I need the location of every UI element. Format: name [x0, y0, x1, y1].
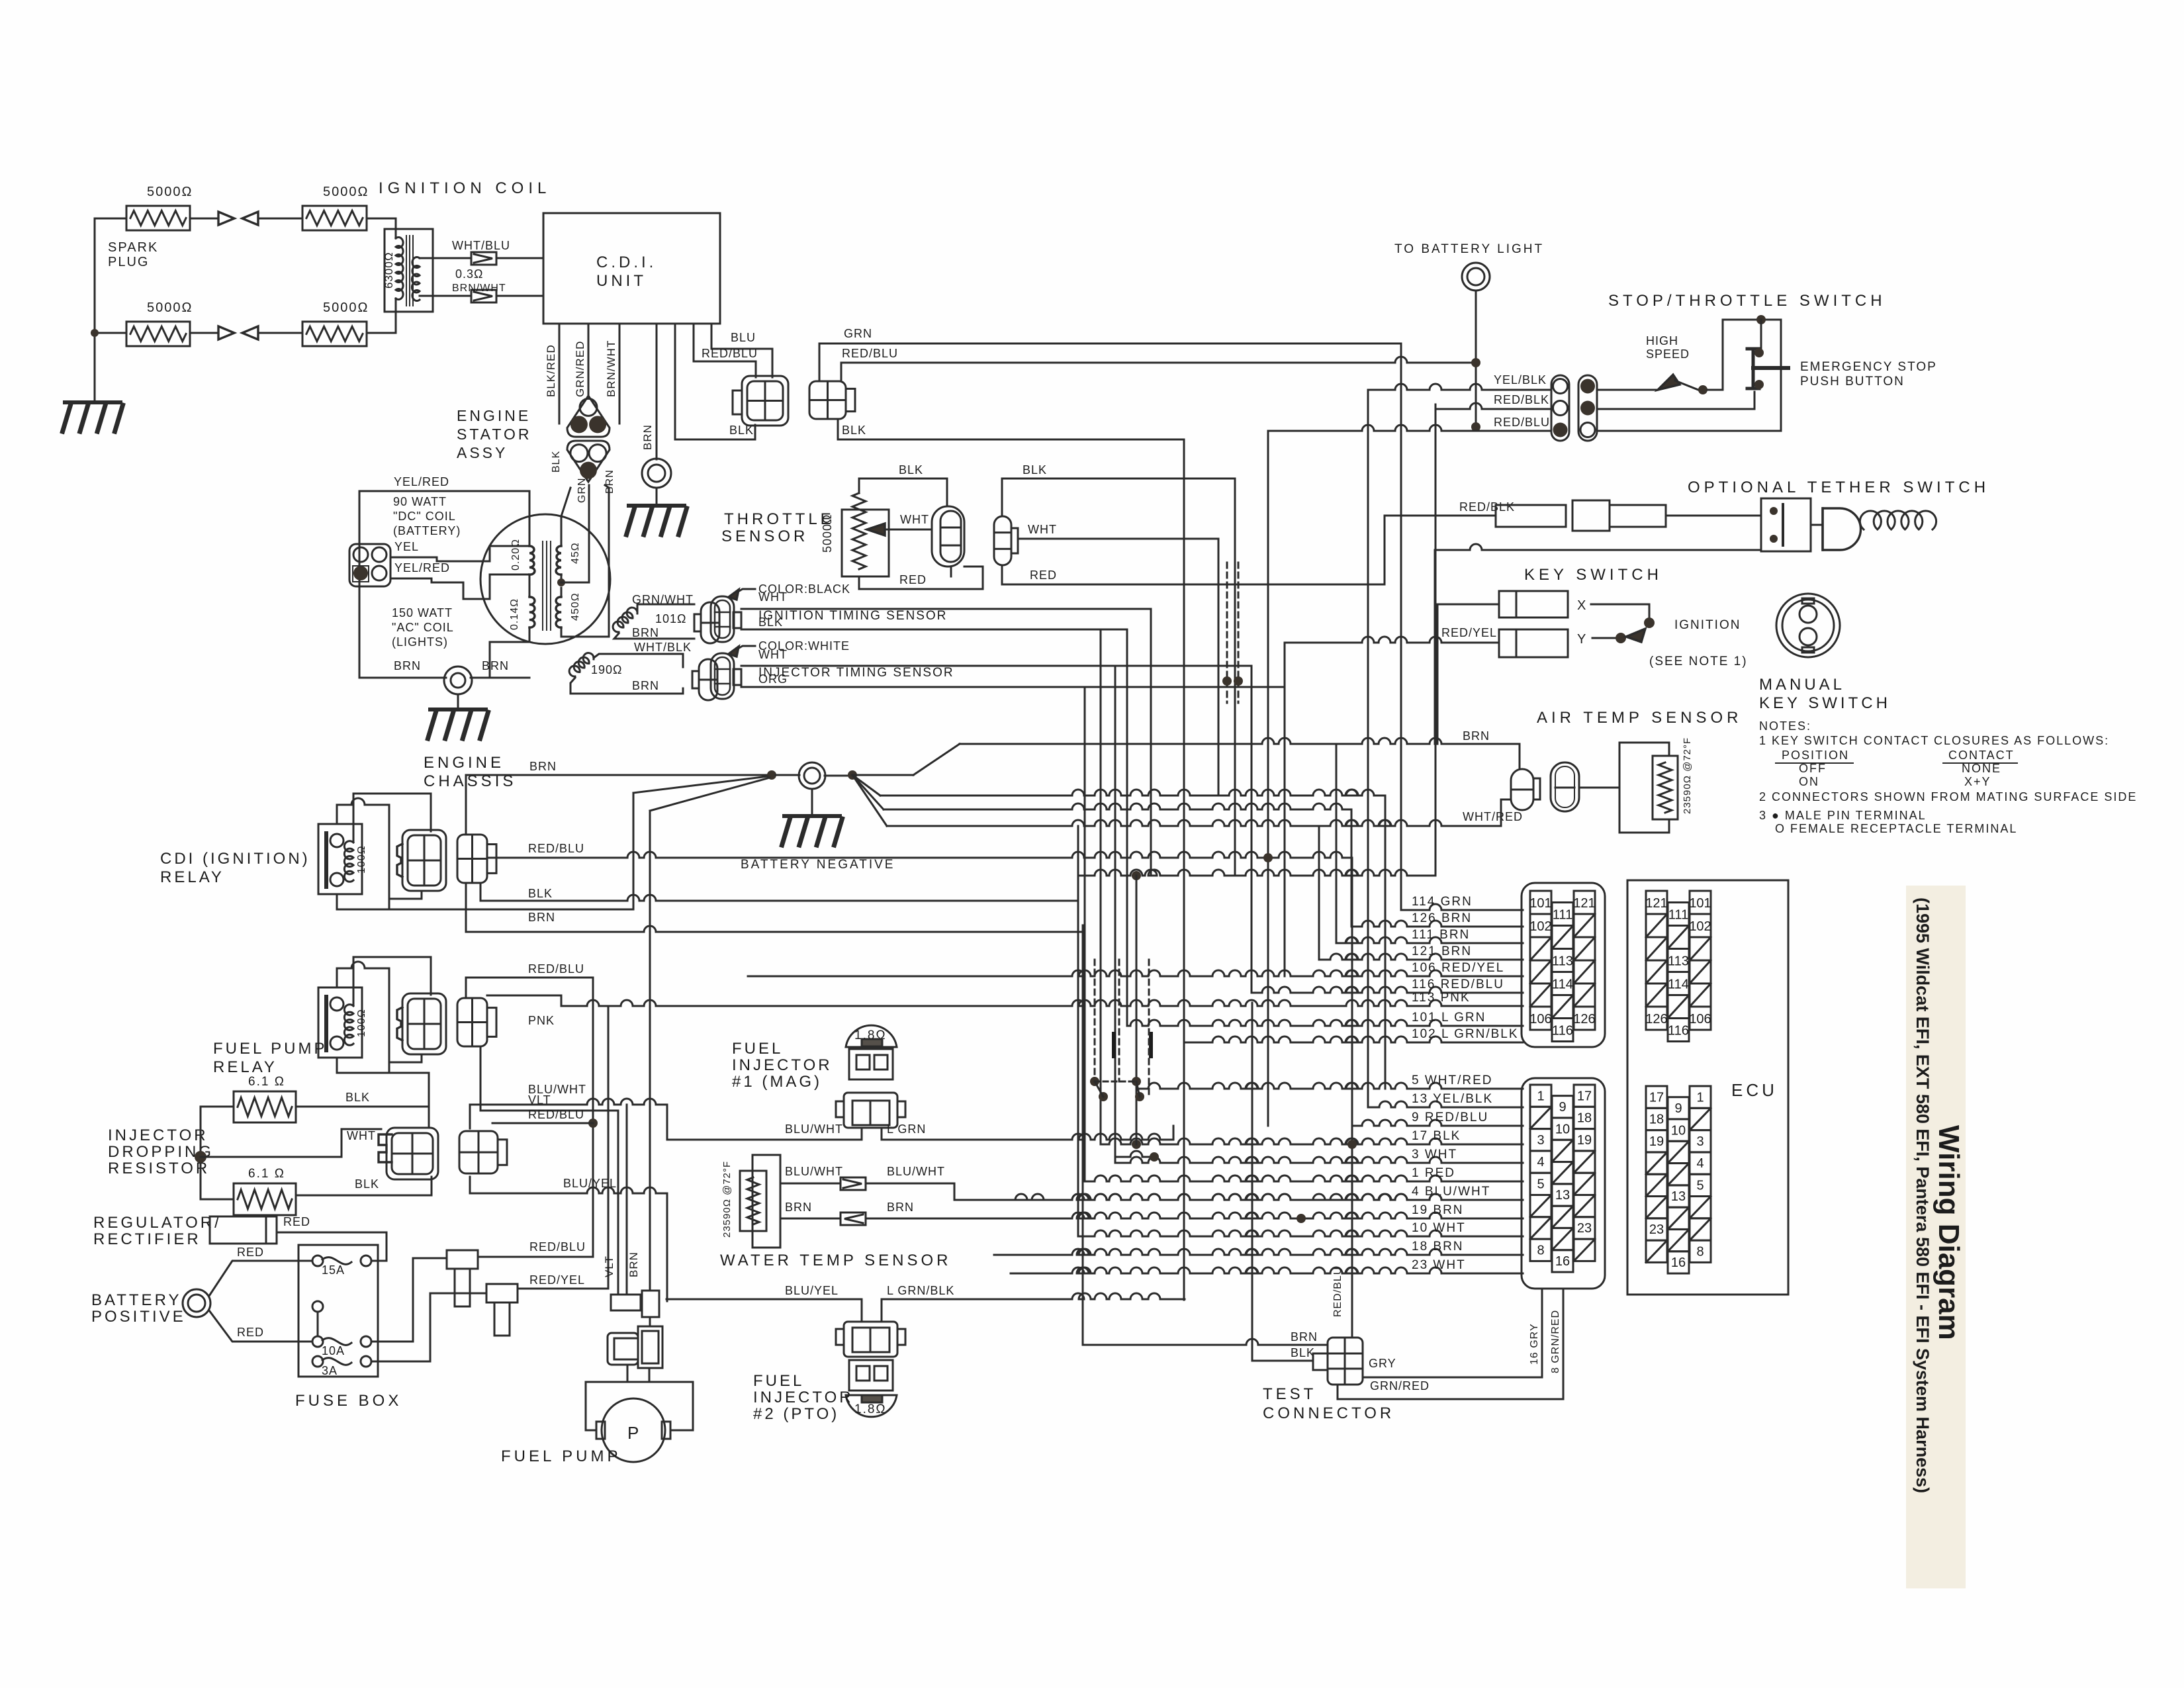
svg-text:WHT/BLU: WHT/BLU	[452, 239, 510, 252]
resistor 6.1ohm lower	[234, 1183, 296, 1215]
svg-text:3 WHT: 3 WHT	[1412, 1148, 1457, 1162]
svg-text:18 BRN: 18 BRN	[1412, 1240, 1464, 1254]
svg-text:GRN: GRN	[844, 327, 872, 340]
svg-text:5 WHT/RED: 5 WHT/RED	[1412, 1074, 1493, 1087]
throttle wiper arrow	[867, 524, 885, 535]
svg-text:6.1 Ω: 6.1 Ω	[248, 1167, 285, 1181]
svg-text:8: 8	[1696, 1244, 1704, 1259]
svg-text:100Ω: 100Ω	[356, 1009, 367, 1037]
throttle RED wire	[859, 567, 983, 589]
dropping resistor connector A	[379, 1134, 392, 1162]
svg-text:8 GRN/RED: 8 GRN/RED	[1550, 1310, 1561, 1373]
svg-text:#2 (PTO): #2 (PTO)	[753, 1405, 839, 1423]
resistor 5000ohm top-left	[126, 206, 190, 230]
svg-text:FUEL: FUEL	[753, 1372, 804, 1390]
wire loop up-right	[1723, 320, 1781, 390]
fuse internal	[312, 1301, 323, 1312]
wire RED/BLU loop right	[1597, 320, 1781, 431]
wire from fan to relay frame	[633, 793, 635, 909]
wire YEL/RED	[390, 578, 490, 599]
svg-text:3: 3	[1696, 1134, 1704, 1149]
svg-text:113: 113	[1668, 954, 1689, 969]
svg-text:116: 116	[1552, 1024, 1573, 1038]
GRN wire	[819, 343, 1401, 381]
capsule conn ign timing	[694, 614, 701, 631]
svg-text:ASSY: ASSY	[457, 444, 508, 461]
wire 10A out	[371, 1258, 447, 1342]
stator coil 450ohm	[556, 597, 561, 627]
svg-text:BRN: BRN	[394, 659, 421, 672]
airtemp oval conn	[1551, 762, 1579, 811]
svg-text:FUEL: FUEL	[732, 1040, 783, 1058]
svg-text:"DC" COIL: "DC" COIL	[393, 510, 456, 523]
inline connector pair pump	[611, 1295, 641, 1310]
svg-text:BRN: BRN	[887, 1201, 914, 1214]
fuse 3A	[312, 1356, 323, 1367]
svg-text:100Ω: 100Ω	[356, 845, 367, 874]
svg-text:111: 111	[1668, 908, 1688, 923]
svg-text:16: 16	[1555, 1254, 1570, 1269]
svg-text:101 L GRN: 101 L GRN	[1412, 1011, 1486, 1025]
svg-text:BLK: BLK	[1023, 463, 1047, 477]
svg-text:121: 121	[1645, 896, 1667, 911]
4-pin connector pair A (with shell)	[742, 376, 788, 426]
svg-text:L GRN: L GRN	[887, 1122, 926, 1136]
svg-text:5000Ω: 5000Ω	[323, 185, 369, 199]
svg-text:RED/BLK: RED/BLK	[1459, 500, 1515, 514]
svg-text:BRN: BRN	[641, 424, 654, 450]
wire 3 WHT	[1115, 1157, 1523, 1163]
verticals lower	[1136, 876, 1138, 1144]
svg-text:5: 5	[1537, 1177, 1544, 1192]
svg-text:15A: 15A	[322, 1263, 345, 1277]
wire 13 YEL/BLK	[1368, 1101, 1523, 1107]
svg-text:POSITION: POSITION	[1782, 749, 1849, 762]
svg-text:126: 126	[1573, 1012, 1595, 1027]
svg-text:Y: Y	[1577, 632, 1586, 647]
svg-text:23 WHT: 23 WHT	[1412, 1258, 1466, 1272]
svg-text:VLT: VLT	[603, 1256, 615, 1277]
svg-text:101: 101	[1689, 896, 1711, 911]
svg-text:126 BRN: 126 BRN	[1412, 911, 1472, 925]
wire 3A out	[371, 1293, 486, 1361]
svg-text:RELAY: RELAY	[160, 868, 224, 886]
dashed connector pair lower	[1094, 960, 1096, 1081]
wire 116 RED/BLU	[1251, 987, 1523, 993]
svg-text:HIGH: HIGH	[1646, 334, 1678, 347]
wire 18 BRN	[994, 1249, 1523, 1255]
svg-text:(SEE NOTE 1): (SEE NOTE 1)	[1649, 655, 1748, 668]
svg-text:23: 23	[1649, 1222, 1664, 1237]
svg-text:8: 8	[1537, 1243, 1544, 1257]
svg-text:BLU: BLU	[731, 331, 756, 344]
svg-text:1 RED: 1 RED	[1412, 1166, 1455, 1180]
airtemp capsule	[1511, 769, 1533, 810]
svg-text:121: 121	[1573, 896, 1595, 911]
bus h 1202	[880, 790, 1385, 796]
test connector verticals	[1082, 925, 1084, 1345]
svg-text:BLK: BLK	[528, 887, 553, 900]
svg-text:WHT/BLK: WHT/BLK	[634, 641, 692, 654]
svg-text:RED/BLK: RED/BLK	[1494, 393, 1549, 406]
wire 102 L GRN/BLK	[1184, 1036, 1523, 1042]
throttle pot box	[842, 510, 889, 576]
svg-text:BLU/WHT: BLU/WHT	[785, 1165, 843, 1178]
svg-text:16 GRY: 16 GRY	[1529, 1323, 1540, 1365]
throttle sensor 2 BLK loop	[1002, 479, 1235, 516]
svg-text:114 GRN: 114 GRN	[1412, 895, 1473, 909]
resistor 5000ohm bottom-right	[302, 322, 367, 346]
RED/BLU wire long	[841, 363, 842, 381]
stator connector lower triangle	[567, 441, 610, 482]
svg-text:ECU: ECU	[1731, 1080, 1778, 1100]
capsule connector 3pin B	[1578, 375, 1597, 441]
svg-text:YEL/RED: YEL/RED	[394, 561, 450, 574]
wire 126 BRN	[1351, 921, 1523, 927]
svg-text:102: 102	[1689, 919, 1711, 934]
svg-text:2 CONNECTORS SHOWN FROM MATING: 2 CONNECTORS SHOWN FROM MATING SURFACE S…	[1759, 790, 2137, 803]
svg-text:5000Ω: 5000Ω	[147, 300, 193, 315]
vert drops from sensors	[1150, 609, 1152, 876]
svg-text:CONTACT: CONTACT	[1948, 749, 2015, 762]
resistor 5000ohm top-right	[302, 206, 367, 230]
svg-text:CONNECTOR: CONNECTOR	[1263, 1404, 1394, 1422]
arrow color black	[733, 589, 755, 594]
ring ground stator	[444, 666, 472, 694]
svg-text:BLK: BLK	[842, 424, 866, 437]
vert 106 RED/YEL	[1284, 643, 1286, 976]
tether coil spring	[1860, 511, 1936, 529]
svg-text:PUSH BUTTON: PUSH BUTTON	[1800, 375, 1905, 388]
BLK wire from B	[838, 419, 1184, 439]
svg-text:113: 113	[1552, 954, 1573, 969]
svg-text:SENSOR: SENSOR	[721, 527, 808, 545]
svg-text:ENGINE: ENGINE	[457, 407, 531, 424]
svg-text:BRN: BRN	[1463, 729, 1490, 743]
svg-text:BRN: BRN	[529, 760, 557, 773]
stator coil 0.20ohm	[529, 546, 535, 574]
wire resistor gaps row1 with arrows	[190, 218, 218, 220]
svg-text:BLK: BLK	[551, 451, 562, 473]
wire YEL	[390, 557, 490, 561]
svg-text:111: 111	[1553, 908, 1572, 923]
svg-text:1.8Ω: 1.8Ω	[854, 1402, 887, 1416]
plug connector 2	[486, 1284, 518, 1303]
svg-text:RED/BLU: RED/BLU	[842, 347, 898, 360]
svg-text:THROTTLE: THROTTLE	[724, 510, 835, 528]
svg-text:23590Ω @72°F: 23590Ω @72°F	[1682, 737, 1693, 814]
regulator box	[210, 1216, 266, 1244]
svg-text:9: 9	[1674, 1101, 1682, 1116]
svg-text:114: 114	[1668, 978, 1689, 992]
svg-text:STATOR: STATOR	[457, 426, 531, 443]
ground ring below CDI	[642, 459, 671, 488]
svg-text:102 L GRN/BLK: 102 L GRN/BLK	[1412, 1027, 1519, 1041]
svg-text:BATTERY: BATTERY	[91, 1291, 181, 1309]
relay CDI (IGNITION) RELAY	[318, 824, 362, 894]
svg-text:FUEL PUMP: FUEL PUMP	[213, 1040, 327, 1058]
4-pin connector B	[809, 381, 846, 419]
svg-text:IGNITION TIMING SENSOR: IGNITION TIMING SENSOR	[758, 609, 947, 623]
svg-text:10: 10	[1555, 1122, 1570, 1136]
svg-text:WATER TEMP SENSOR: WATER TEMP SENSOR	[720, 1252, 951, 1269]
wire 111 BRN	[1336, 937, 1523, 943]
stator coil 45ohm	[556, 546, 561, 574]
capsule connector 3pin A	[1551, 375, 1569, 441]
svg-text:GRN/RED: GRN/RED	[1370, 1379, 1430, 1393]
fan wires right	[852, 774, 913, 776]
svg-text:NOTES:: NOTES:	[1759, 719, 1811, 733]
emergency stop push button	[1760, 320, 1762, 349]
svg-text:"AC" COIL: "AC" COIL	[392, 621, 454, 634]
resistor 5000ohm bottom-left	[126, 322, 190, 346]
svg-text:RED/BLU: RED/BLU	[1494, 416, 1550, 429]
svg-text:YEL/RED: YEL/RED	[394, 475, 449, 488]
svg-text:WHT: WHT	[900, 513, 929, 526]
node diamond	[195, 1151, 206, 1163]
wire 1 RED	[1085, 1175, 1523, 1181]
battery light ring	[1462, 263, 1490, 291]
svg-text:23590Ω @72°F: 23590Ω @72°F	[721, 1161, 733, 1238]
svg-text:(LIGHTS): (LIGHTS)	[392, 635, 448, 649]
wire 5 WHT/RED	[1136, 1083, 1523, 1089]
svg-text:OPTIONAL TETHER SWITCH: OPTIONAL TETHER SWITCH	[1688, 479, 1989, 496]
svg-text:ON: ON	[1799, 775, 1819, 788]
svg-text:0.20Ω: 0.20Ω	[510, 539, 522, 571]
svg-text:111 BRN: 111 BRN	[1412, 928, 1470, 942]
svg-text:BRN/WHT: BRN/WHT	[452, 283, 506, 294]
vert 121 BRN	[1318, 826, 1320, 960]
svg-text:101: 101	[1529, 896, 1551, 911]
dropping resistor connector B	[459, 1131, 498, 1173]
svg-text:WHT: WHT	[347, 1129, 376, 1142]
wire 23 WHT	[1011, 1267, 1523, 1273]
vert 126 BRN	[1351, 809, 1353, 927]
sensor2 RED wire	[1002, 565, 1385, 584]
svg-text:YEL: YEL	[394, 540, 419, 553]
svg-text:19: 19	[1649, 1134, 1664, 1149]
svg-text:102: 102	[1529, 919, 1551, 934]
4-pin connector stator left	[349, 544, 390, 586]
svg-text:PLUG: PLUG	[108, 255, 149, 269]
svg-text:114: 114	[1552, 978, 1573, 992]
tether inline connectors	[1496, 505, 1566, 527]
svg-text:RED/BLU: RED/BLU	[528, 962, 584, 976]
svg-text:9 RED/BLU: 9 RED/BLU	[1412, 1111, 1488, 1124]
ignition timing oval connector	[711, 596, 734, 642]
svg-text:RED/YEL: RED/YEL	[529, 1273, 585, 1287]
wire lower tether	[1435, 544, 1761, 550]
svg-text:17: 17	[1649, 1090, 1664, 1105]
wire row2 arrows	[190, 332, 218, 334]
svg-text:GRN/RED: GRN/RED	[574, 341, 586, 397]
relay FUEL PUMP RELAY	[318, 987, 362, 1058]
svg-text:GRN: GRN	[576, 477, 588, 503]
svg-text:RED/YEL: RED/YEL	[1441, 626, 1497, 639]
svg-text:17 BLK: 17 BLK	[1412, 1129, 1461, 1143]
svg-text:BLK/RED: BLK/RED	[545, 344, 557, 397]
svg-text:19 BRN: 19 BRN	[1412, 1203, 1464, 1217]
injector2 connector	[861, 1299, 863, 1322]
fuse 15A	[312, 1256, 323, 1266]
svg-text:RED/BLU: RED/BLU	[528, 842, 584, 855]
svg-text:#1 (MAG): #1 (MAG)	[732, 1073, 822, 1091]
svg-text:BLK: BLK	[758, 616, 783, 629]
stator box	[359, 491, 529, 678]
plug connector 1	[447, 1250, 478, 1269]
svg-text:BLK: BLK	[345, 1091, 370, 1104]
injector1 dome	[846, 1025, 897, 1047]
svg-text:190Ω: 190Ω	[591, 663, 623, 676]
vertical RED/BLU to fuse	[592, 978, 594, 1257]
vert 13 YEL/BLK	[1367, 390, 1369, 1107]
wire 106 RED/YEL	[748, 970, 1523, 976]
svg-text:RED: RED	[237, 1246, 264, 1259]
left bracket	[201, 1107, 234, 1199]
svg-text:INJECTOR: INJECTOR	[108, 1126, 208, 1144]
wire RED/BLK to button	[1597, 392, 1754, 409]
vert 5 WHT/RED	[1385, 796, 1387, 1089]
svg-text:106 RED/YEL: 106 RED/YEL	[1412, 961, 1504, 975]
stator winding wires	[489, 546, 491, 561]
svg-text:9: 9	[1559, 1100, 1566, 1115]
wire small conn CDI to BRN bus	[465, 775, 467, 835]
injector timing oval connector	[711, 653, 734, 699]
svg-text:150 WATT: 150 WATT	[392, 606, 453, 619]
ground spark plug	[65, 400, 120, 404]
wire 17 BLK	[1101, 1138, 1523, 1144]
svg-text:X: X	[1577, 598, 1586, 613]
svg-text:13: 13	[1555, 1188, 1570, 1203]
svg-text:101Ω: 101Ω	[655, 612, 687, 625]
svg-text:P: P	[627, 1423, 640, 1443]
svg-text:BRN: BRN	[627, 1252, 640, 1277]
svg-text:4: 4	[1537, 1155, 1544, 1169]
airtemp sensor body	[1619, 743, 1669, 833]
coil 190ohm	[569, 653, 594, 677]
svg-text:BRN: BRN	[632, 679, 659, 692]
svg-text:RECTIFIER: RECTIFIER	[93, 1230, 201, 1248]
svg-text:121 BRN: 121 BRN	[1412, 944, 1472, 958]
svg-text:WHT/RED: WHT/RED	[1463, 810, 1523, 823]
svg-text:450Ω: 450Ω	[570, 592, 581, 621]
pump connector pair	[608, 1333, 638, 1365]
wire 15A to reg	[371, 1260, 387, 1262]
wire to transformer	[367, 218, 396, 220]
coil 101ohm	[613, 608, 637, 632]
relay wire to conn	[389, 1073, 429, 1107]
svg-text:BLK: BLK	[899, 463, 923, 477]
svg-text:AIR TEMP SENSOR: AIR TEMP SENSOR	[1537, 709, 1743, 727]
svg-text:17: 17	[1577, 1089, 1592, 1103]
dashed connector pair top	[1226, 563, 1228, 703]
svg-text:6.1 Ω: 6.1 Ω	[248, 1075, 285, 1089]
svg-text:Wiring Diagram: Wiring Diagram	[1933, 1125, 1965, 1340]
svg-text:O FEMALE RECEPTACLE TERMINAL: O FEMALE RECEPTACLE TERMINAL	[1775, 822, 2017, 835]
bus h 1223	[884, 803, 1351, 809]
svg-text:4 BLU/WHT: 4 BLU/WHT	[1412, 1185, 1490, 1199]
svg-text:KEY SWITCH: KEY SWITCH	[1524, 566, 1662, 584]
svg-text:BATTERY NEGATIVE: BATTERY NEGATIVE	[741, 858, 895, 872]
svg-text:L GRN/BLK: L GRN/BLK	[887, 1284, 954, 1297]
vertical 982 bus	[649, 811, 651, 1291]
svg-text:RED: RED	[237, 1326, 264, 1339]
svg-text:RESISTOR: RESISTOR	[108, 1160, 210, 1177]
throttle sensor 2 capsule	[994, 516, 1011, 565]
wire PNK 113	[487, 995, 561, 1006]
svg-text:106: 106	[1689, 1012, 1711, 1027]
vert 111 BRN	[1336, 744, 1338, 943]
svg-text:1: 1	[1537, 1089, 1544, 1103]
svg-text:ENGINE: ENGINE	[424, 754, 504, 772]
capsule conn inj timing	[692, 671, 699, 688]
svg-text:X+Y: X+Y	[1964, 775, 1991, 788]
svg-text:YEL/BLK: YEL/BLK	[1494, 373, 1547, 387]
svg-text:RED: RED	[283, 1215, 310, 1228]
svg-text:13: 13	[1671, 1189, 1686, 1204]
C.D.I. unit box	[543, 213, 720, 324]
wire hop 1748	[1115, 1151, 1154, 1157]
harness connector upper (rounded)	[1522, 883, 1605, 1047]
vertical BRN pump	[626, 1105, 628, 1295]
ECU box	[1627, 880, 1788, 1295]
tether switch box	[1761, 498, 1811, 551]
ignition switch lever	[1626, 629, 1645, 642]
injector1 wires	[667, 1139, 862, 1141]
svg-text:3 ● MALE PIN TERMINAL: 3 ● MALE PIN TERMINAL	[1759, 809, 1927, 822]
wire RED/BLU from CDI	[694, 324, 756, 377]
bus h 1296 RED/BLU relay	[487, 852, 1352, 858]
wire BRN/WHT to CDI	[420, 295, 471, 297]
svg-text:0.3Ω: 0.3Ω	[455, 267, 483, 281]
svg-text:C.D.I.: C.D.I.	[596, 253, 657, 271]
stator connector upper triangle	[567, 396, 610, 437]
tether D cap	[1823, 508, 1861, 550]
svg-text:5000Ω: 5000Ω	[821, 514, 834, 553]
injector2 box+dome	[849, 1360, 893, 1391]
wire 9 RED/BLU	[1352, 1120, 1523, 1126]
svg-text:IGNITION: IGNITION	[1674, 618, 1741, 632]
svg-text:RED/BLU: RED/BLU	[1332, 1267, 1343, 1317]
wire BRN keyswitch upper	[1437, 604, 1499, 606]
wires 190ohm	[594, 654, 683, 667]
svg-text:1 KEY SWITCH CONTACT CLOSURES: 1 KEY SWITCH CONTACT CLOSURES AS FOLLOWS…	[1759, 734, 2109, 747]
svg-text:BRN: BRN	[482, 659, 509, 672]
wire 121 BRN	[1319, 954, 1523, 960]
svg-text:TO BATTERY LIGHT: TO BATTERY LIGHT	[1394, 242, 1544, 256]
wire WHT/BLU to CDI	[420, 257, 471, 259]
switch lever	[1658, 375, 1680, 390]
svg-text:BRN: BRN	[528, 911, 555, 924]
wire 4 BLU/WHT	[966, 1194, 1523, 1200]
fuel pump outline	[586, 1382, 693, 1430]
harness connector lower (rounded)	[1522, 1078, 1605, 1289]
vert 116 RED/BLU	[1251, 666, 1253, 993]
svg-text:45Ω: 45Ω	[570, 542, 581, 564]
vert 9 RED/BLU	[1267, 431, 1269, 1126]
svg-text:INJECTOR: INJECTOR	[732, 1056, 833, 1074]
svg-text:BLU/WHT: BLU/WHT	[528, 1083, 586, 1096]
svg-text:116: 116	[1668, 1024, 1689, 1038]
svg-text:EMERGENCY STOP: EMERGENCY STOP	[1800, 360, 1937, 374]
svg-text:BLU/YEL: BLU/YEL	[785, 1284, 839, 1297]
svg-text:SPEED: SPEED	[1646, 347, 1690, 361]
manual key switch symbol	[1776, 594, 1840, 657]
svg-text:FUEL PUMP: FUEL PUMP	[501, 1447, 621, 1465]
svg-text:4: 4	[1696, 1156, 1704, 1171]
svg-text:BLK: BLK	[355, 1177, 379, 1191]
svg-text:REGULATOR/: REGULATOR/	[93, 1214, 222, 1232]
